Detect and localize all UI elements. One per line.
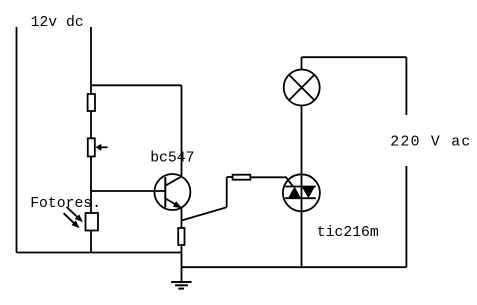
- resistor divider top: [88, 94, 95, 111]
- triac tic216m body circle: [283, 174, 320, 211]
- wire gate to triac: [250, 177, 293, 186]
- photoresistor light arrow 2: [64, 213, 80, 228]
- photoresistor light arrow 1: [67, 207, 83, 222]
- wire below emitter resistor: [181, 245, 183, 282]
- resistor gate: [233, 175, 251, 180]
- wire collector top horizontal: [91, 84, 182, 86]
- wire gate branch diagonal: [182, 207, 227, 220]
- wire base horizontal: [91, 190, 165, 192]
- svg-text:tic216m: tic216m: [317, 225, 379, 241]
- potentiometer wiper arrow: [96, 144, 108, 151]
- potentiometer body: [88, 138, 95, 156]
- svg-text:bc547: bc547: [150, 151, 194, 167]
- transistor bc547 body circle: [154, 174, 190, 210]
- svg-text:12v dc: 12v dc: [31, 15, 84, 31]
- wire bottom left horizontal: [17, 252, 182, 254]
- triac left triangle: [288, 187, 301, 199]
- wire below photoresistor: [90, 231, 92, 253]
- photoresistor body: [86, 213, 99, 231]
- triac top bar: [285, 186, 316, 188]
- wire emitter vertical: [181, 208, 183, 228]
- lamp body circle: [284, 70, 320, 106]
- wire bottom right horizontal: [182, 266, 407, 268]
- wire divider rail top segment: [90, 27, 92, 94]
- svg-text:220 V ac: 220 V ac: [390, 135, 471, 151]
- transistor collector stroke: [165, 177, 181, 186]
- resistor emitter: [178, 228, 184, 245]
- transistor base bar: [164, 177, 166, 208]
- transistor emitter stroke: [165, 198, 182, 208]
- svg-text:Fotores.: Fotores.: [30, 196, 101, 212]
- wire between R1 and potentiometer: [90, 111, 92, 138]
- wire top horizontal: [302, 56, 407, 58]
- wire lamp to triac to bottom: [301, 106, 303, 268]
- lamp cross: [289, 75, 314, 100]
- wire right rail upper: [405, 57, 407, 115]
- wire collector vertical: [181, 85, 183, 176]
- triac right triangle: [302, 187, 315, 199]
- wire right rail lower: [405, 166, 407, 267]
- wire gate branch vertical: [226, 177, 228, 207]
- wire lamp top lead: [301, 57, 303, 69]
- wire left rail vertical: [16, 27, 18, 253]
- wire gate branch horizontal left: [227, 176, 233, 178]
- ground: [171, 282, 191, 289]
- triac bottom bar: [285, 197, 316, 199]
- wire between potentiometer and photoresistor: [90, 156, 92, 214]
